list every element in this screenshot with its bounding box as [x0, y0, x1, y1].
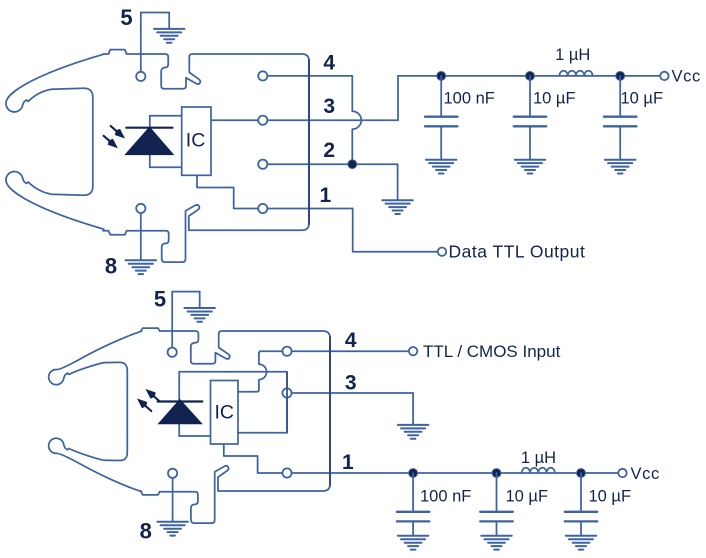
svg-text:10 µF: 10 µF [506, 488, 549, 506]
svg-text:Data TTL Output: Data TTL Output [449, 242, 586, 262]
svg-text:1 µH: 1 µH [555, 46, 590, 64]
svg-text:3: 3 [323, 95, 335, 118]
svg-text:5: 5 [120, 5, 132, 30]
svg-text:1: 1 [342, 451, 354, 474]
svg-text:4: 4 [345, 329, 357, 352]
svg-text:TTL / CMOS Input: TTL / CMOS Input [423, 342, 561, 361]
svg-text:5: 5 [154, 287, 166, 312]
svg-text:1: 1 [320, 184, 332, 207]
svg-text:8: 8 [140, 519, 152, 544]
svg-text:2: 2 [323, 139, 335, 162]
svg-text:3: 3 [345, 372, 357, 395]
svg-text:Vcc: Vcc [672, 68, 701, 86]
svg-text:1 µH: 1 µH [521, 449, 556, 467]
svg-text:10 µF: 10 µF [621, 90, 664, 108]
svg-text:100 nF: 100 nF [444, 90, 495, 108]
svg-text:10 µF: 10 µF [589, 488, 632, 506]
svg-text:100 nF: 100 nF [420, 488, 471, 506]
svg-text:10 µF: 10 µF [533, 90, 576, 108]
svg-text:IC: IC [215, 402, 235, 424]
svg-text:Vcc: Vcc [631, 465, 660, 483]
svg-text:4: 4 [323, 52, 335, 75]
svg-text:IC: IC [186, 130, 206, 152]
svg-text:8: 8 [105, 254, 117, 279]
